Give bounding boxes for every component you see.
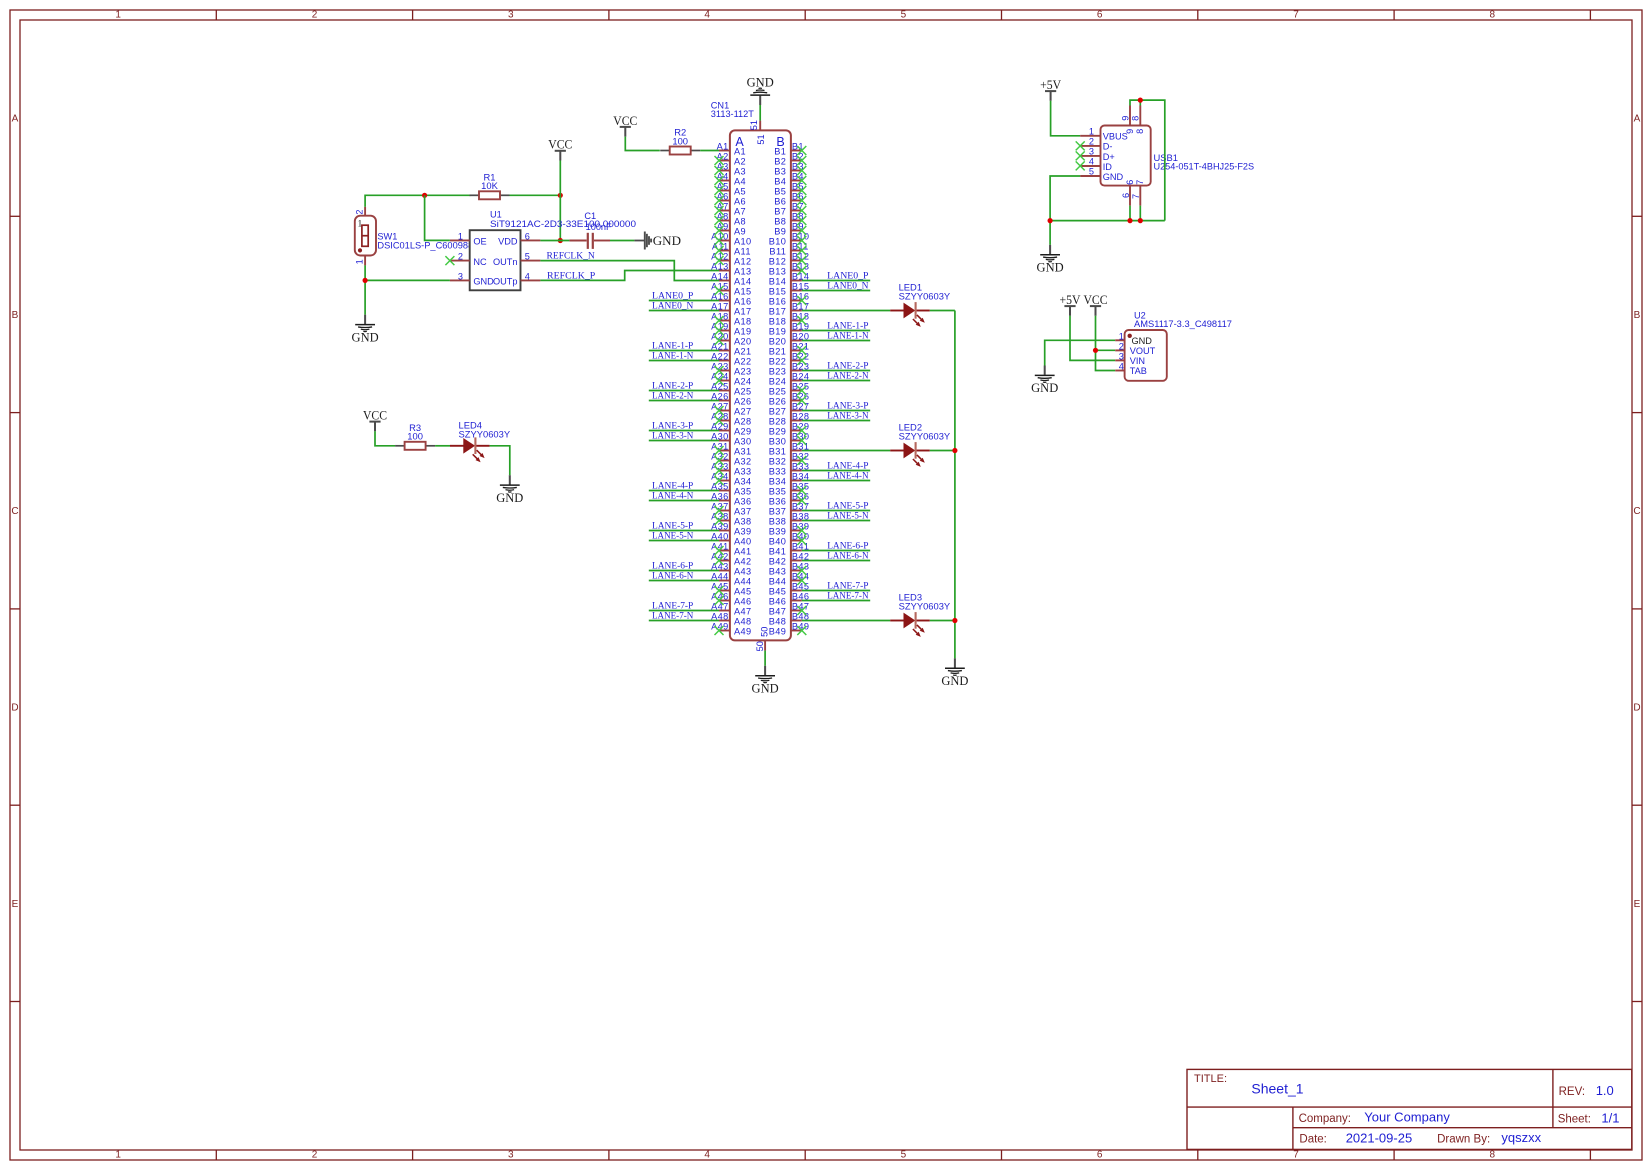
net label LANE-7-P (A47) (652, 601, 693, 611)
svg-text:1.0: 1.0 (1596, 1083, 1614, 1098)
svg-text:4: 4 (1119, 362, 1124, 372)
svg-text:C: C (11, 506, 18, 517)
svg-text:A1: A1 (717, 142, 729, 152)
svg-text:GND: GND (1031, 381, 1058, 395)
svg-text:1: 1 (1119, 331, 1124, 341)
svg-text:6: 6 (1097, 1150, 1103, 1161)
svg-text:2021-09-25: 2021-09-25 (1346, 1131, 1413, 1146)
svg-text:Drawn By:: Drawn By: (1437, 1134, 1490, 1146)
svg-text:B23: B23 (769, 366, 787, 376)
svg-text:B: B (12, 310, 19, 321)
svg-text:GND: GND (747, 76, 774, 90)
svg-text:LANE-2-N: LANE-2-N (652, 391, 693, 401)
svg-text:VCC: VCC (548, 137, 572, 152)
title block (1187, 1069, 1632, 1149)
svg-text:DSIC01LS-P_C600988: DSIC01LS-P_C600988 (377, 240, 473, 250)
svg-text:LANE-3-P: LANE-3-P (652, 421, 693, 431)
svg-text:1/1: 1/1 (1601, 1111, 1619, 1126)
LED LED4 SZYY0603Y (450, 420, 511, 463)
svg-text:7: 7 (1293, 1150, 1299, 1161)
svg-text:LANE-4-P: LANE-4-P (652, 481, 693, 491)
svg-text:B18: B18 (769, 316, 787, 326)
power flag VCC (above R2) (613, 113, 660, 151)
svg-text:LANE0_N: LANE0_N (827, 281, 868, 291)
net label LANE-2-N (A26) (652, 391, 693, 401)
svg-text:LANE-2-P: LANE-2-P (652, 381, 693, 391)
svg-text:A32: A32 (734, 456, 752, 466)
no-connect X marks on CN1 A-side pins (715, 156, 724, 635)
ground GND (LED bus) (941, 658, 968, 688)
svg-text:LANE-4-N: LANE-4-N (652, 491, 693, 501)
svg-text:B46: B46 (769, 596, 787, 606)
svg-text:B24: B24 (769, 376, 787, 386)
svg-text:A35: A35 (734, 486, 752, 496)
svg-text:U1: U1 (490, 209, 502, 219)
svg-text:LANE-6-P: LANE-6-P (827, 541, 868, 551)
wire U2 VOUT to VCC (1096, 349, 1116, 351)
svg-text:A8: A8 (734, 216, 746, 226)
wire B48 to LED3 (802, 620, 890, 622)
net label LANE-1-N (A22) (652, 351, 693, 361)
svg-text:D: D (11, 703, 18, 714)
svg-text:100: 100 (407, 431, 423, 442)
net label LANE-1-N (B20) (827, 331, 868, 341)
svg-text:B33: B33 (769, 466, 787, 476)
svg-text:A1: A1 (734, 146, 746, 156)
svg-text:B37: B37 (769, 506, 787, 516)
svg-text:NC: NC (473, 257, 487, 267)
svg-text:2: 2 (1119, 341, 1124, 351)
capacitor C1 100nF (569, 211, 612, 249)
svg-text:6: 6 (1125, 180, 1135, 185)
svg-text:3113-112T: 3113-112T (711, 109, 754, 119)
svg-text:B10: B10 (769, 236, 787, 246)
svg-text:B44: B44 (769, 576, 787, 586)
svg-text:GND: GND (1037, 261, 1064, 275)
svg-text:A3: A3 (734, 166, 746, 176)
net label LANE-6-N wire (A44) (649, 580, 719, 582)
svg-text:B15: B15 (769, 286, 787, 296)
svg-text:3: 3 (458, 271, 463, 281)
junction at R1 left / OE branch (422, 193, 427, 198)
ground GND (arrow flag right of C1) (634, 232, 681, 250)
junction LED3 / bus (952, 618, 957, 623)
junction VOUT / VCC (1093, 348, 1098, 353)
svg-text:GND: GND (1103, 172, 1124, 182)
net label LANE-7-P wire (B45) (802, 590, 870, 592)
svg-text:A13: A13 (734, 266, 752, 276)
svg-text:A23: A23 (734, 366, 752, 376)
svg-text:6: 6 (1121, 193, 1131, 198)
svg-text:B14: B14 (769, 276, 787, 286)
svg-text:8: 8 (1490, 1150, 1496, 1161)
svg-text:B27: B27 (769, 406, 787, 416)
svg-text:SZYY0603Y: SZYY0603Y (899, 291, 951, 302)
svg-text:A47: A47 (734, 606, 752, 616)
wire U1 VDD to C1 (540, 240, 569, 242)
svg-text:B21: B21 (769, 346, 787, 356)
svg-text:A21: A21 (734, 346, 752, 356)
svg-text:A6: A6 (734, 196, 746, 206)
net label LANE-4-P (B33) (827, 461, 868, 471)
wire U2 GND pin1 (1045, 340, 1116, 365)
net label LANE0_N (A17) (652, 301, 693, 311)
svg-text:B31: B31 (769, 446, 787, 456)
svg-text:LANE-3-P: LANE-3-P (827, 401, 868, 411)
svg-text:REFCLK_N: REFCLK_N (547, 251, 595, 261)
svg-text:C: C (1633, 506, 1640, 517)
svg-text:VCC: VCC (1084, 292, 1108, 307)
svg-text:B43: B43 (769, 566, 787, 576)
svg-text:A30: A30 (734, 436, 752, 446)
net label LANE-3-P (A29) (652, 421, 693, 431)
svg-text:D-: D- (1103, 142, 1113, 152)
svg-text:GND: GND (473, 277, 494, 287)
net label LANE-7-N wire (B46) (802, 600, 870, 602)
ground GND (below SW1) (352, 315, 379, 345)
svg-text:B20: B20 (769, 336, 787, 346)
svg-text:A11: A11 (734, 246, 751, 256)
power flag VCC (top, over U1) (548, 137, 572, 196)
svg-text:A14: A14 (711, 272, 729, 282)
wire VCC down to U1 VDD (559, 195, 561, 240)
net label LANE-2-N wire (B24) (802, 380, 870, 382)
svg-text:REV:: REV: (1559, 1086, 1585, 1098)
junction VDD / C1 (558, 238, 563, 243)
svg-text:7: 7 (1135, 180, 1145, 185)
svg-text:5: 5 (901, 1150, 907, 1161)
svg-text:10K: 10K (481, 180, 498, 191)
wire SW1 pin2 to R1/VCC net (365, 195, 470, 207)
power flag VCC (above R3) (363, 408, 395, 446)
net label LANE-3-N (B28) (827, 411, 868, 421)
ground GND (below USB1) (1037, 245, 1064, 275)
net label REFCLK_N wire (OUTn to A14) (540, 261, 719, 281)
svg-text:B48: B48 (769, 616, 787, 626)
switch SW1 DSIC01LS-P_C600988 (355, 207, 474, 266)
svg-text:A27: A27 (734, 406, 752, 416)
ground GND (above CN1 pin 51) (747, 76, 774, 121)
regulator U2 AMS1117-3.3_C498117 (1115, 310, 1232, 381)
net label LANE0_P wire (B14) (802, 280, 870, 282)
svg-text:51: 51 (749, 120, 759, 130)
LED LED2 SZYY0603Y (890, 422, 951, 467)
svg-text:A7: A7 (734, 206, 746, 216)
net label LANE-5-P wire (A39) (649, 530, 719, 532)
svg-text:8: 8 (1135, 129, 1145, 134)
svg-text:E: E (12, 899, 19, 910)
net label LANE-4-N (A36) (652, 491, 693, 501)
svg-text:LANE0_P: LANE0_P (827, 271, 868, 281)
wire B31 to LED2 (802, 450, 890, 452)
junction pin8 / top wire (1138, 98, 1143, 103)
svg-text:100: 100 (672, 135, 688, 146)
net label LANE-2-N (B24) (827, 371, 868, 381)
svg-text:9: 9 (1120, 116, 1130, 121)
wire LED3 cathode to GND bus (930, 620, 955, 622)
svg-text:B5: B5 (774, 186, 786, 196)
net label LANE-4-N (B34) (827, 471, 868, 481)
svg-text:A40: A40 (734, 536, 752, 546)
net label LANE-5-P wire (B37) (802, 510, 870, 512)
svg-text:1: 1 (458, 231, 463, 241)
svg-text:6: 6 (525, 231, 530, 241)
net label LANE0_P wire (A16) (649, 300, 719, 302)
svg-text:GND: GND (352, 330, 379, 344)
net label LANE0_N (B15) (827, 281, 868, 291)
svg-text:100nF: 100nF (586, 222, 612, 232)
svg-text:VCC: VCC (363, 408, 387, 423)
svg-text:LANE-2-N: LANE-2-N (827, 371, 868, 381)
connector CN1 3113-112T (711, 100, 810, 651)
svg-text:A42: A42 (734, 556, 752, 566)
svg-text:A28: A28 (734, 416, 752, 426)
net label LANE-5-P (B37) (827, 501, 868, 511)
net label LANE-1-P wire (A21) (649, 350, 719, 352)
svg-text:LANE0_P: LANE0_P (652, 291, 693, 301)
net label LANE-2-N wire (A26) (649, 400, 719, 402)
svg-text:A44: A44 (734, 576, 752, 586)
svg-text:B36: B36 (769, 496, 787, 506)
svg-text:SZYY0603Y: SZYY0603Y (459, 429, 511, 440)
svg-text:B25: B25 (769, 386, 787, 396)
svg-text:A34: A34 (734, 476, 752, 486)
svg-text:A26: A26 (734, 396, 752, 406)
svg-text:LANE-5-P: LANE-5-P (827, 501, 868, 511)
net label LANE-5-N (B38) (827, 511, 868, 521)
svg-text:B2: B2 (774, 156, 786, 166)
svg-text:A45: A45 (734, 586, 752, 596)
op-amp U1 SiT9121AC oscillator (450, 209, 636, 290)
svg-text:A9: A9 (734, 226, 746, 236)
svg-text:A19: A19 (734, 326, 752, 336)
svg-text:3: 3 (1119, 351, 1124, 361)
svg-text:B41: B41 (769, 546, 787, 556)
ground GND (below CN1 pin 50) (752, 651, 779, 696)
svg-text:1: 1 (1089, 127, 1094, 137)
svg-text:ID: ID (1103, 162, 1113, 172)
svg-text:4: 4 (525, 271, 530, 281)
svg-text:Sheet:: Sheet: (1558, 1114, 1591, 1126)
svg-text:LANE-2-P: LANE-2-P (827, 361, 868, 371)
svg-text:B42: B42 (769, 556, 787, 566)
svg-text:1: 1 (355, 259, 365, 264)
svg-text:+5V: +5V (1040, 77, 1062, 92)
svg-text:A25: A25 (734, 386, 752, 396)
net label LANE-5-P (A39) (652, 521, 693, 531)
wire USB1 shield top (pins 9,8) (1130, 100, 1165, 221)
svg-text:4: 4 (1089, 157, 1094, 167)
wire LED2 cathode to GND bus (930, 450, 955, 452)
svg-text:A38: A38 (734, 516, 752, 526)
LED LED3 SZYY0603Y (890, 592, 951, 637)
svg-text:A46: A46 (734, 596, 752, 606)
svg-text:LANE-6-P: LANE-6-P (652, 561, 693, 571)
net label LANE0_N wire (A17) (649, 310, 719, 312)
net label LANE0_P (B14) (827, 271, 868, 281)
svg-text:4: 4 (704, 1150, 710, 1161)
svg-text:51: 51 (756, 134, 766, 144)
svg-text:E: E (1634, 899, 1641, 910)
svg-text:LANE-1-P: LANE-1-P (652, 341, 693, 351)
svg-text:B11: B11 (769, 246, 786, 256)
svg-text:B1: B1 (774, 146, 786, 156)
svg-text:A22: A22 (734, 356, 752, 366)
svg-text:1: 1 (115, 1150, 121, 1161)
net label LANE-6-P (B41) (827, 541, 868, 551)
svg-text:A49: A49 (734, 626, 752, 636)
net label LANE-4-P wire (A35) (649, 490, 719, 492)
svg-text:A18: A18 (734, 316, 752, 326)
wire USB1 pin5 GND (1050, 176, 1080, 245)
no-connect X on USB1 pins 2,3,4 (1076, 141, 1085, 170)
svg-text:1: 1 (115, 10, 121, 21)
svg-text:A5: A5 (734, 186, 746, 196)
svg-text:A24: A24 (734, 376, 752, 386)
svg-text:B8: B8 (774, 216, 786, 226)
svg-text:Your Company: Your Company (1364, 1110, 1450, 1125)
resistor R1 10K (470, 171, 510, 199)
svg-text:A33: A33 (734, 466, 752, 476)
svg-text:A39: A39 (734, 526, 752, 536)
svg-text:AMS1117-3.3_C498117: AMS1117-3.3_C498117 (1134, 319, 1232, 329)
net label LANE-1-N wire (A22) (649, 360, 719, 362)
wire R2 to CN1 A1 (700, 150, 719, 152)
svg-text:7: 7 (1131, 194, 1141, 199)
junction LED2 / bus (952, 448, 957, 453)
svg-text:B12: B12 (769, 256, 787, 266)
ground GND (left of U2) (1031, 366, 1058, 396)
svg-text:OUTn: OUTn (493, 257, 518, 267)
svg-text:A2: A2 (734, 156, 746, 166)
svg-text:B4: B4 (774, 176, 786, 186)
svg-text:2: 2 (312, 10, 318, 21)
net label LANE-2-P wire (B23) (802, 370, 870, 372)
svg-text:A12: A12 (734, 256, 752, 266)
svg-text:A48: A48 (734, 616, 752, 626)
svg-text:A29: A29 (734, 426, 752, 436)
svg-text:2: 2 (355, 209, 365, 214)
net label LANE-7-N (B46) (827, 591, 868, 601)
svg-text:5: 5 (901, 10, 907, 21)
no-connect X marks on CN1 B-side pins (797, 146, 806, 635)
junction pin6 / bottom wire (1127, 218, 1132, 223)
svg-text:B34: B34 (769, 476, 787, 486)
svg-text:B17: B17 (769, 306, 787, 316)
svg-text:B19: B19 (769, 326, 787, 336)
svg-text:LANE-1-P: LANE-1-P (827, 321, 868, 331)
net label LANE-6-P wire (B41) (802, 550, 870, 552)
junction GND bottom-left (1048, 218, 1053, 223)
svg-text:A: A (12, 114, 19, 125)
svg-text:LANE-4-P: LANE-4-P (827, 461, 868, 471)
svg-text:9: 9 (1125, 129, 1135, 134)
wire OE branch down to U1 pin 1 (425, 195, 450, 240)
svg-text:A31: A31 (734, 446, 752, 456)
svg-text:LANE-7-N: LANE-7-N (827, 591, 868, 601)
svg-text:A: A (1634, 114, 1641, 125)
svg-text:GND: GND (653, 233, 681, 248)
power flag VCC (above U2) (1084, 292, 1116, 371)
net label LANE-5-N (A40) (652, 531, 693, 541)
junction VCC / R1 (558, 193, 563, 198)
junction pin7 / bottom wire (1138, 218, 1143, 223)
svg-text:A20: A20 (734, 336, 752, 346)
svg-text:A4: A4 (734, 176, 746, 186)
svg-text:A14: A14 (734, 276, 752, 286)
net label LANE-7-N wire (A48) (649, 620, 719, 622)
svg-text:D: D (1633, 703, 1640, 714)
svg-text:REFCLK_P: REFCLK_P (547, 272, 595, 282)
svg-text:VDD: VDD (498, 237, 518, 247)
svg-text:LANE0_N: LANE0_N (652, 301, 693, 311)
net label LANE-4-N wire (B34) (802, 480, 870, 482)
net label LANE-5-N wire (A40) (649, 540, 719, 542)
svg-text:B49: B49 (769, 626, 787, 636)
net label LANE-2-P (B23) (827, 361, 868, 371)
wire USB1 GND bottom (pins 6,7) (1050, 206, 1165, 221)
net label LANE-1-P wire (B19) (802, 330, 870, 332)
svg-text:8: 8 (1490, 10, 1496, 21)
svg-text:A16: A16 (734, 296, 752, 306)
svg-text:3: 3 (508, 10, 514, 21)
svg-text:LANE-5-N: LANE-5-N (652, 531, 693, 541)
svg-text:B26: B26 (769, 396, 787, 406)
svg-text:B30: B30 (769, 436, 787, 446)
svg-text:LANE-3-N: LANE-3-N (652, 431, 693, 441)
svg-text:A17: A17 (734, 306, 752, 316)
LED LED1 SZYY0603Y (890, 282, 951, 327)
svg-text:50: 50 (755, 641, 765, 651)
net label LANE-6-P (A43) (652, 561, 693, 571)
net label LANE-3-P wire (B27) (802, 410, 870, 412)
svg-text:LANE-1-N: LANE-1-N (652, 351, 693, 361)
svg-text:LANE-7-P: LANE-7-P (827, 581, 868, 591)
svg-text:B16: B16 (769, 296, 787, 306)
svg-text:B47: B47 (769, 606, 787, 616)
wire C1 to GND arrow (610, 240, 634, 242)
wire LED1 cathode to GND bus (930, 310, 955, 312)
net label LANE-7-P wire (A47) (649, 610, 719, 612)
net label LANE-3-P wire (A29) (649, 430, 719, 432)
net label LANE-3-P (B27) (827, 401, 868, 411)
svg-text:B22: B22 (769, 356, 787, 366)
svg-text:OUTp: OUTp (493, 277, 518, 287)
svg-text:A10: A10 (734, 236, 752, 246)
wire SW1 pin1 / U1 GND net (365, 265, 450, 314)
net label LANE0_P (A16) (652, 291, 693, 301)
svg-text:B6: B6 (774, 196, 786, 206)
net label LANE-6-N (A44) (652, 571, 693, 581)
ground GND (LED4) (496, 475, 523, 505)
svg-text:SiT9121AC-2D3-33E100.000000: SiT9121AC-2D3-33E100.000000 (490, 219, 636, 229)
power flag +5V (above USB1) (1040, 77, 1080, 136)
svg-text:Company:: Company: (1299, 1113, 1351, 1125)
svg-text:6: 6 (1097, 10, 1103, 21)
svg-text:B39: B39 (769, 526, 787, 536)
svg-text:LANE-7-P: LANE-7-P (652, 601, 693, 611)
svg-text:OE: OE (473, 237, 486, 247)
resistor R3 100 (395, 422, 435, 450)
svg-text:B28: B28 (769, 416, 787, 426)
net label LANE-1-N wire (B20) (802, 340, 870, 342)
net label LANE-3-N wire (B28) (802, 420, 870, 422)
svg-text:GND: GND (496, 491, 523, 505)
svg-text:C1: C1 (584, 211, 596, 221)
net label REFCLK_N (547, 251, 595, 261)
svg-text:2: 2 (458, 252, 463, 262)
svg-text:VOUT: VOUT (1130, 346, 1156, 356)
